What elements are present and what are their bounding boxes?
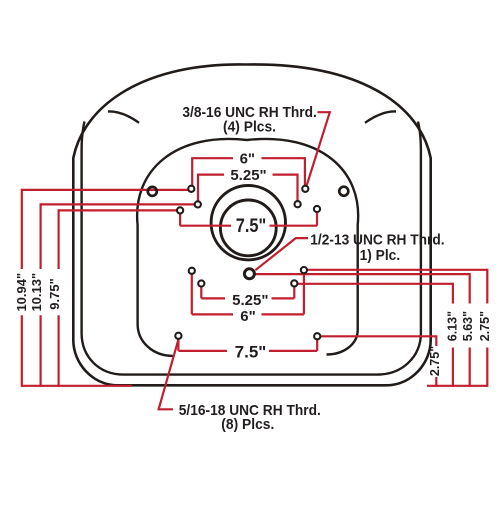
svg-text:6.13": 6.13" <box>446 311 460 341</box>
leader 1/2-13 <box>255 238 308 270</box>
left ref line from hole G <box>59 209 177 211</box>
bottom dim 7.5in bracket <box>178 339 317 351</box>
seat outer shell <box>73 64 430 385</box>
svg-text:6": 6" <box>240 308 255 325</box>
hole F 5.25 top right <box>295 201 301 207</box>
svg-text:9.75": 9.75" <box>47 278 62 309</box>
right ref line from hole J <box>307 269 487 271</box>
hole D 6in top right <box>302 186 308 192</box>
hole E 5.25 top left <box>195 201 201 207</box>
mounting plate outline <box>137 139 358 356</box>
hole C 6in top left <box>188 186 194 192</box>
svg-text:7.5": 7.5" <box>235 343 267 362</box>
right dim vertical 2.75 <box>486 269 488 387</box>
hole O 7.5 bottom right <box>314 333 320 339</box>
svg-text:7.5": 7.5" <box>236 216 267 237</box>
hole I 6in bottom left <box>189 268 195 274</box>
svg-text:6": 6" <box>240 150 255 167</box>
hole L 5.25 bottom right <box>291 280 297 286</box>
left dim vertical 10.94 <box>21 189 23 387</box>
hole J 6in bottom right <box>301 267 307 273</box>
left ref line from hole E <box>41 203 195 205</box>
right ref line from center hole M <box>255 273 470 275</box>
hole H 7.5 top right <box>314 206 320 212</box>
svg-text:1) Plc.: 1) Plc. <box>360 247 401 264</box>
center boss outer circle <box>211 186 285 260</box>
left dim vertical 9.75 <box>57 209 59 387</box>
right dim vertical 5.63 <box>469 273 471 387</box>
right bottom ref line <box>427 385 487 387</box>
pivot hole A (no fill, red line passes) <box>148 187 157 196</box>
left bottom ref line <box>22 385 132 387</box>
svg-text:5.63": 5.63" <box>461 311 475 341</box>
bottom dim 5.25in bracket <box>201 287 294 299</box>
center hole M 1/2-13 <box>244 269 254 279</box>
mid 2.75 dim <box>320 335 436 387</box>
left crease arc <box>108 111 139 122</box>
left dim vertical 10.13 <box>39 203 41 387</box>
seat inner shell rim <box>82 122 421 375</box>
svg-text:(8) Plcs.: (8) Plcs. <box>221 416 274 433</box>
right crease arc <box>365 111 396 122</box>
svg-text:5.25": 5.25" <box>232 292 268 309</box>
center boss inner circle <box>220 200 276 256</box>
hole K 5.25 bottom left <box>198 280 204 286</box>
right dim vertical 6.13 <box>452 283 454 387</box>
svg-text:10.13": 10.13" <box>29 273 44 312</box>
svg-text:5.25": 5.25" <box>230 167 266 184</box>
right ref line from hole L <box>298 283 453 285</box>
leader 3/8-16 <box>307 112 330 185</box>
svg-text:(4) Plcs.: (4) Plcs. <box>223 119 276 136</box>
bottom dim 6in bracket <box>192 273 304 314</box>
pivot hole B <box>339 187 348 196</box>
top dim 7.5in line <box>180 212 317 226</box>
svg-text:2.75": 2.75" <box>428 346 442 376</box>
left ref line from hole C <box>22 189 188 191</box>
svg-text:10.94": 10.94" <box>14 273 29 312</box>
leader 5/16-18 <box>159 339 179 410</box>
svg-text:2.75": 2.75" <box>478 311 492 341</box>
hole G 7.5 top left <box>177 207 183 213</box>
top dim 5.25in bracket <box>198 174 298 201</box>
top dim 6in bracket <box>192 157 305 185</box>
hole N 7.5 bottom left <box>175 333 181 339</box>
